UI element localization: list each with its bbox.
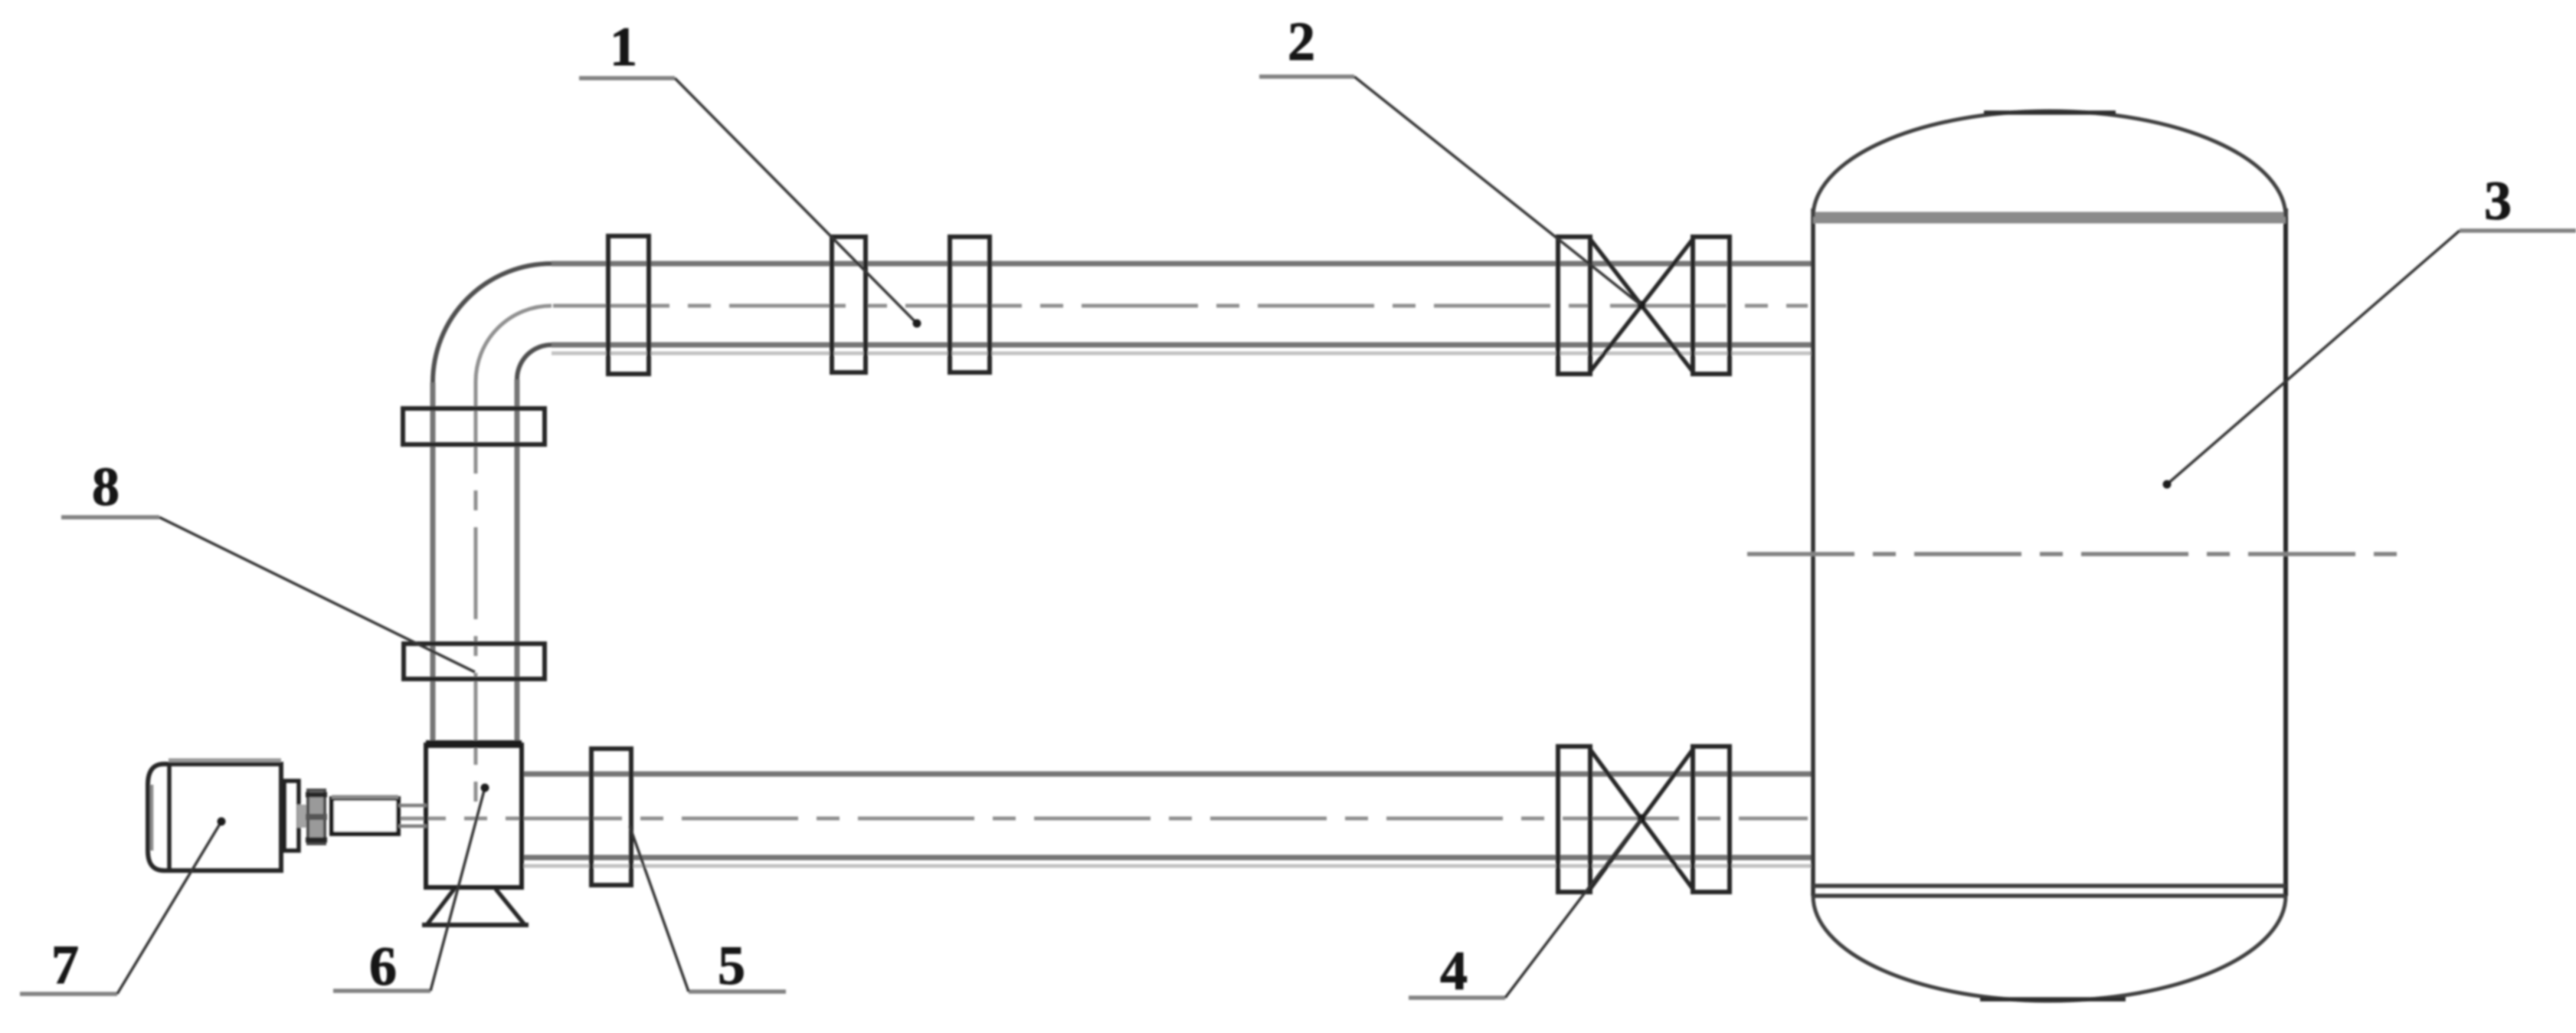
- wire bottom pipe bottom halo: [522, 864, 1813, 868]
- flange F-C on top pipe (pipe section 1 right): [950, 237, 990, 372]
- tank right edge: [2283, 208, 2288, 896]
- svg-text:5: 5: [718, 935, 745, 996]
- wire vertical pipe left line: [430, 382, 436, 745]
- elbow centerline arc: [476, 306, 552, 382]
- flange F-D upper flange on vertical pipe: [403, 408, 545, 444]
- svg-text:7: 7: [51, 934, 79, 995]
- valve V2 cross line b: [1590, 239, 1693, 372]
- coupling spacer top gray edge: [332, 795, 398, 799]
- valve V4 left flange: [1558, 746, 1590, 892]
- wire top pipe centerline: [553, 304, 1808, 308]
- leader 3 underline: [2460, 228, 2576, 233]
- valve V4 center dot: [1638, 815, 1646, 823]
- coupling rib band top: [306, 792, 327, 798]
- pump base right slant: [496, 889, 525, 926]
- leader 7 underline: [20, 992, 117, 996]
- svg-text:6: 6: [369, 936, 397, 997]
- leader 1 dot: [913, 320, 921, 328]
- tank bottom seam upper line: [1813, 884, 2286, 888]
- wire top pipe bottom line: [552, 343, 1813, 348]
- tank top dome: [1813, 111, 2286, 217]
- svg-text:4: 4: [1440, 940, 1468, 1002]
- valve V2 right flange: [1693, 237, 1730, 374]
- coupling rib band middle: [306, 814, 327, 820]
- leader 4 underline: [1409, 995, 1505, 1000]
- leader 3 diagonal: [2167, 231, 2460, 484]
- svg-text:3: 3: [2484, 170, 2512, 231]
- pump shaft lower line: [398, 825, 427, 828]
- tank bottom dome: [1813, 896, 2286, 1001]
- motor M body (label 7 target): [148, 764, 281, 871]
- motor shaft flange box: [284, 781, 299, 851]
- pump P body (label 6 target): [426, 745, 522, 887]
- tank centerline: [1747, 552, 2400, 556]
- wire top pipe top line: [552, 261, 1813, 267]
- svg-text:8: 8: [92, 456, 119, 517]
- coupling drive bar: [297, 805, 309, 828]
- flange F-E lower flange on vertical pipe (label 8 target): [404, 644, 545, 679]
- elbow outer arc: [433, 264, 552, 382]
- pump top plate: [426, 740, 522, 748]
- flange F-A on top pipe near elbow: [608, 236, 649, 374]
- valve V2 left flange: [1558, 237, 1590, 374]
- leader 8 diagonal: [159, 517, 475, 672]
- tank top weld seam: [1813, 212, 2286, 224]
- wire bottom pipe centerline: [329, 817, 1808, 821]
- wire vertical pipe right line: [515, 379, 520, 745]
- leader 6 underline: [333, 989, 430, 993]
- leader 2 underline: [1259, 74, 1354, 79]
- coupling ribbed element: [308, 790, 325, 844]
- valve V2 cross line a: [1590, 239, 1693, 372]
- flange F-B on top pipe (pipe section 1 left): [832, 237, 866, 372]
- valve V2 center dot: [1638, 301, 1646, 310]
- coupling spacer cylinder: [332, 799, 398, 834]
- pump base plate: [422, 923, 529, 927]
- flange F5 on bottom pipe (label 5 target): [591, 749, 631, 885]
- leader 5 diagonal: [630, 826, 689, 992]
- tank top dome flat segment: [1984, 110, 2116, 115]
- leader 1 underline: [579, 76, 675, 80]
- leader 7 dot: [218, 818, 226, 826]
- valve V4 cross line a: [1590, 749, 1693, 889]
- svg-text:2: 2: [1288, 11, 1315, 72]
- tank bottom seam lower line: [1813, 894, 2286, 898]
- pump base left slant: [427, 889, 454, 925]
- motor left cap inner gray line: [150, 785, 154, 851]
- wire vertical pipe centerline: [474, 382, 478, 802]
- leader 6 dot: [481, 784, 489, 792]
- motor top edge highlight: [169, 759, 281, 762]
- leader 6 diagonal: [430, 788, 485, 991]
- elbow inner arc: [517, 345, 552, 379]
- leader 8 underline: [61, 515, 159, 520]
- tank left edge: [1811, 208, 1815, 896]
- leader 5 underline: [689, 989, 786, 994]
- tank bottom dome flat segment: [1980, 997, 2126, 1002]
- leader 7 diagonal: [117, 821, 221, 994]
- leader 1 diagonal: [675, 78, 917, 323]
- pump shaft upper line: [398, 804, 427, 808]
- leader 3 dot: [2163, 480, 2172, 489]
- leader 4 diagonal: [1505, 819, 1641, 998]
- svg-text:1: 1: [610, 16, 637, 77]
- wire bottom pipe top line: [522, 772, 1813, 777]
- coupling rib band bottom: [306, 838, 327, 843]
- wire bottom pipe bottom line: [522, 855, 1813, 861]
- leader 2 diagonal: [1354, 77, 1640, 304]
- motor end cap line: [167, 765, 172, 870]
- wire top pipe bottom halo: [552, 352, 1813, 356]
- valve V4 right flange: [1693, 746, 1730, 892]
- valve V4 cross line b: [1590, 749, 1693, 889]
